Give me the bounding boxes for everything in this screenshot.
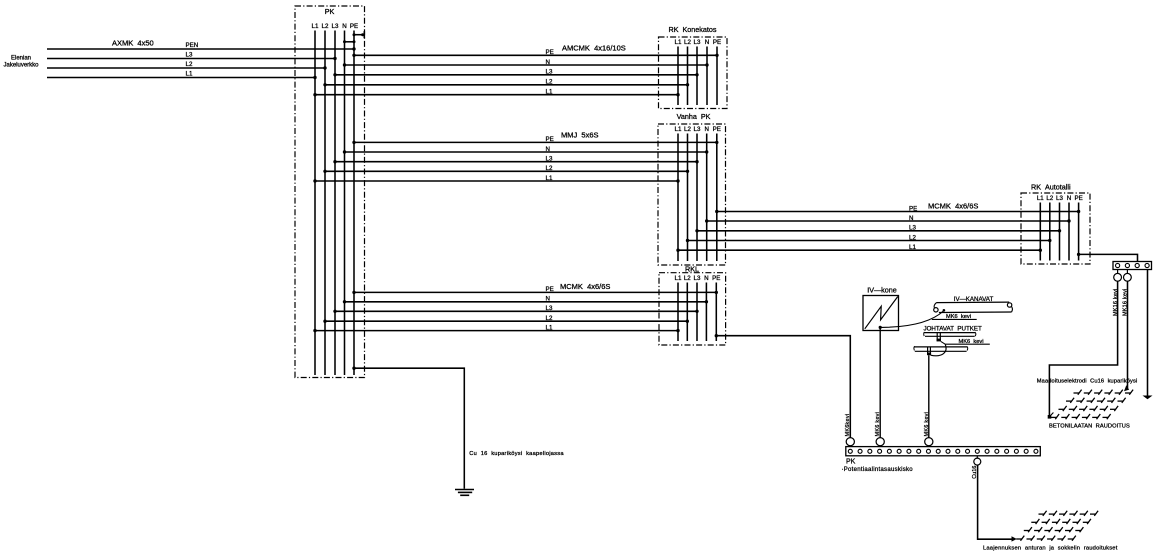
svg-text:Maadoituselektrodi Cu16 kupa: Maadoituselektrodi Cu16 kupariköysi: [1037, 379, 1138, 385]
svg-text:L1: L1: [312, 23, 319, 30]
svg-text:AXMK 4x50: AXMK 4x50: [112, 39, 154, 48]
svg-text:Cu 16 kupariköysi kaapelioj: Cu 16 kupariköysi kaapeliojassa: [469, 451, 564, 457]
svg-text:PK: PK: [325, 7, 335, 16]
svg-text:L3: L3: [694, 126, 701, 133]
svg-text:L1: L1: [186, 71, 193, 78]
svg-text:RK Autotalli: RK Autotalli: [1031, 183, 1071, 192]
svg-text:PEN: PEN: [186, 42, 199, 49]
svg-text:PE: PE: [350, 23, 358, 30]
svg-text:L2: L2: [684, 275, 691, 282]
svg-text:L3: L3: [546, 156, 553, 163]
svg-text:L2: L2: [684, 126, 691, 133]
svg-text:·Potentiaalintasauskisko: ·Potentiaalintasauskisko: [842, 467, 914, 473]
svg-text:MK6 kevi: MK6 kevi: [924, 412, 930, 437]
svg-text:L1: L1: [909, 244, 916, 251]
svg-text:L2: L2: [546, 315, 553, 322]
svg-text:L3: L3: [332, 23, 339, 30]
svg-text:MCMK 4x6/6S: MCMK 4x6/6S: [560, 282, 610, 291]
svg-text:N: N: [704, 275, 708, 282]
svg-text:N: N: [546, 296, 550, 303]
svg-text:PE: PE: [1074, 195, 1082, 202]
svg-text:MK6 kevi: MK6 kevi: [946, 314, 971, 320]
svg-text:PE: PE: [546, 136, 554, 143]
svg-text:L3: L3: [546, 69, 553, 76]
svg-text:N: N: [546, 146, 550, 153]
svg-text:Vanha PK: Vanha PK: [677, 112, 711, 121]
svg-text:JOHTAVAT PUTKET: JOHTAVAT PUTKET: [924, 325, 983, 332]
svg-text:Jakeluverkko: Jakeluverkko: [3, 63, 39, 69]
svg-text:PE: PE: [713, 126, 721, 133]
svg-text:PE: PE: [713, 39, 721, 46]
svg-text:L1: L1: [546, 324, 553, 331]
svg-text:PE: PE: [712, 275, 720, 282]
svg-text:IV—kone: IV—kone: [867, 285, 897, 294]
svg-text:L3: L3: [694, 39, 701, 46]
svg-text:L1: L1: [675, 39, 682, 46]
svg-text:MCMK 4x6/6S: MCMK 4x6/6S: [928, 202, 978, 211]
svg-text:MK6 kevi: MK6 kevi: [959, 339, 984, 345]
svg-text:PE: PE: [546, 49, 554, 56]
svg-text:N: N: [704, 126, 708, 133]
svg-text:MK6 kevi: MK6 kevi: [875, 412, 881, 437]
svg-text:PE: PE: [546, 286, 554, 293]
svg-text:L3: L3: [694, 275, 701, 282]
svg-text:BETONILAATAN RAUDOITUS: BETONILAATAN RAUDOITUS: [1049, 424, 1130, 430]
svg-text:N: N: [1067, 195, 1071, 202]
svg-text:Elenian: Elenian: [11, 56, 31, 62]
svg-text:MMJ 5x6S: MMJ 5x6S: [561, 131, 599, 140]
svg-text:RK Konekatos: RK Konekatos: [669, 25, 717, 34]
svg-text:L2: L2: [186, 61, 193, 68]
svg-text:L1: L1: [675, 126, 682, 133]
svg-text:Laajennuksen anturan ja sok: Laajennuksen anturan ja sokkelin raudoit…: [983, 546, 1118, 552]
svg-text:L2: L2: [909, 234, 916, 241]
svg-text:N: N: [909, 215, 913, 222]
svg-text:N: N: [342, 23, 346, 30]
svg-text:L1: L1: [1037, 195, 1044, 202]
svg-text:N: N: [546, 59, 550, 66]
svg-text:L2: L2: [322, 23, 329, 30]
svg-text:L1: L1: [546, 89, 553, 96]
svg-text:L2: L2: [1046, 195, 1053, 202]
svg-text:L2: L2: [684, 39, 691, 46]
svg-text:MK6kevi: MK6kevi: [845, 414, 851, 437]
svg-text:L3: L3: [186, 52, 193, 59]
svg-text:L1: L1: [675, 275, 682, 282]
svg-text:L1: L1: [546, 175, 553, 182]
svg-text:AMCMK 4x16/10S: AMCMK 4x16/10S: [562, 44, 626, 53]
svg-text:L2: L2: [546, 79, 553, 86]
svg-text:PK: PK: [846, 459, 856, 466]
svg-text:N: N: [705, 39, 709, 46]
svg-text:L2: L2: [546, 165, 553, 172]
svg-text:L3: L3: [546, 305, 553, 312]
svg-text:MK16 kevi: MK16 kevi: [1113, 289, 1119, 316]
svg-text:L3: L3: [1056, 195, 1063, 202]
svg-text:L3: L3: [909, 225, 916, 232]
svg-text:PE: PE: [909, 205, 917, 212]
svg-text:RKL: RKL: [685, 264, 699, 273]
svg-text:MK16 kevi: MK16 kevi: [1123, 289, 1129, 316]
